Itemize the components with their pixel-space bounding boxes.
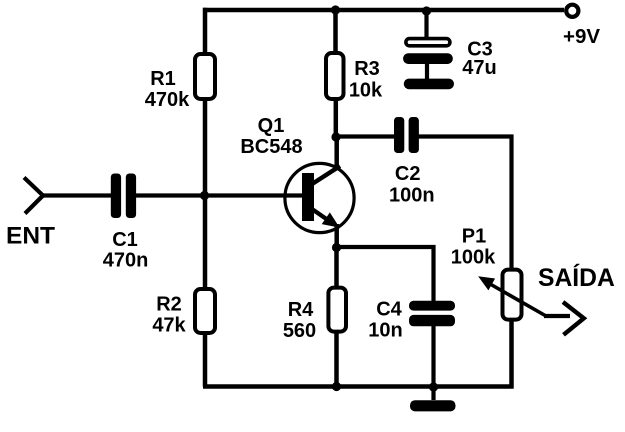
transistor Q1 emitter stroke with arrow: [311, 208, 338, 226]
label P1 100k: [451, 225, 496, 268]
svg-text:Q1: Q1: [258, 115, 285, 137]
label SAIDA: [538, 264, 615, 292]
wire C3 negative lead: [425, 63, 429, 80]
svg-text:BC548: BC548: [240, 136, 302, 158]
svg-text:560: 560: [283, 320, 316, 342]
capacitor C3 plate negative: [403, 53, 453, 64]
wire R2 bottom: [203, 334, 208, 387]
wire C4 bottom to rail: [431, 326, 435, 388]
svg-text:100n: 100n: [389, 184, 435, 206]
resistor R4: [328, 288, 346, 332]
wire R2 top: [203, 196, 208, 288]
svg-text:SAÍDA: SAÍDA: [538, 264, 615, 292]
input terminal arrow: [24, 178, 43, 214]
wire input to C1: [42, 193, 112, 197]
node C4 ground rail junction: [429, 382, 438, 391]
wire collector vertical: [334, 137, 339, 169]
wire R3 top: [333, 8, 338, 53]
potentiometer P1 body: [503, 270, 522, 320]
node base junction: [200, 191, 209, 200]
node top rail / C3 junction: [422, 6, 431, 15]
wire top supply rail: [203, 8, 564, 13]
label C2 100n: [389, 163, 435, 206]
ground: [410, 387, 456, 411]
svg-text:10n: 10n: [368, 320, 402, 342]
potentiometer P1 wiper arrow: [480, 278, 546, 317]
wire wiper to output: [544, 314, 570, 318]
wire emitter node to C4: [337, 247, 434, 301]
wire R4 top: [334, 248, 339, 287]
wire R4 bottom: [334, 333, 339, 387]
wire emitter vertical: [334, 224, 339, 250]
node top rail / R3 junction: [331, 5, 340, 14]
+9V terminal: [566, 5, 578, 17]
wire bottom ground rail: [203, 384, 514, 389]
svg-text:10k: 10k: [349, 80, 383, 102]
capacitor C4: [409, 301, 455, 327]
transistor Q1 collector stroke: [311, 166, 341, 185]
svg-text:C2: C2: [395, 163, 421, 185]
capacitor C3 ground bar: [404, 79, 454, 90]
svg-text:R4: R4: [288, 299, 314, 321]
svg-text:47u: 47u: [462, 57, 496, 79]
wire R3 bottom to collector node: [334, 100, 339, 139]
svg-text:P1: P1: [462, 225, 486, 247]
label R1 470k: [145, 68, 190, 111]
label R4 560: [283, 299, 316, 342]
node collector junction: [331, 132, 340, 141]
label C4 10n: [368, 298, 402, 341]
node emitter junction: [332, 243, 341, 252]
transistor Q1 base bar: [302, 173, 314, 221]
svg-text:R2: R2: [156, 293, 182, 315]
svg-text:+9V: +9V: [563, 25, 600, 48]
wire C3 top: [424, 11, 428, 38]
resistor R1: [195, 54, 215, 99]
wire P1 bottom to rail: [509, 321, 514, 389]
resistor R2: [195, 289, 215, 333]
label R3 10k: [349, 58, 383, 102]
label C1 470n: [103, 229, 149, 271]
svg-text:C1: C1: [112, 229, 138, 251]
label R2 47k: [152, 293, 186, 336]
svg-text:470n: 470n: [103, 249, 149, 271]
resistor R3: [326, 53, 344, 99]
svg-text:ENT: ENT: [6, 223, 55, 250]
transistor Q1 circle: [285, 163, 354, 232]
wire C1 to base: [136, 193, 302, 197]
svg-text:R1: R1: [150, 68, 176, 90]
svg-text:R3: R3: [354, 58, 380, 80]
svg-text:470k: 470k: [145, 89, 190, 111]
wire R1 top: [203, 8, 208, 53]
wire C2 to P1 branch: [418, 137, 512, 269]
capacitor C2: [394, 117, 419, 153]
svg-text:C4: C4: [376, 298, 402, 320]
svg-text:100k: 100k: [451, 246, 496, 268]
output terminal arrow: [563, 302, 584, 335]
capacitor C1: [111, 174, 136, 219]
wire collector node to C2: [336, 134, 395, 138]
label ENT: [6, 223, 55, 250]
svg-text:47k: 47k: [152, 315, 186, 337]
label C3 47u: [462, 38, 496, 79]
label +9V: [563, 25, 600, 48]
node R4 ground rail junction: [332, 382, 341, 391]
capacitor C3 plate positive: [406, 39, 450, 46]
label Q1 BC548: [240, 115, 302, 158]
wire R1 bottom to base node: [203, 100, 208, 196]
